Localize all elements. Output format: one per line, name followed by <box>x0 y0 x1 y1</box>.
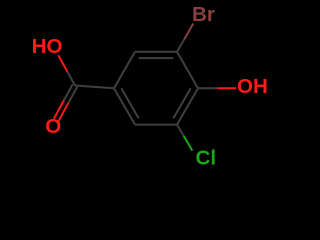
svg-text:HO: HO <box>32 35 63 58</box>
svg-text:OH: OH <box>237 75 268 98</box>
svg-text:Cl: Cl <box>196 147 217 170</box>
svg-text:Br: Br <box>192 3 215 26</box>
svg-text:O: O <box>45 115 61 138</box>
